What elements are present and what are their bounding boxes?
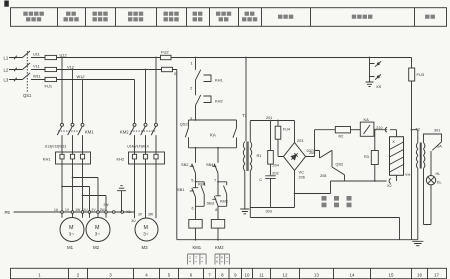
wire M1 columns down	[62, 164, 83, 218]
svg-text:V11: V11	[33, 64, 40, 69]
svg-text:301: 301	[434, 129, 440, 133]
chuck YH box	[390, 137, 404, 176]
fuse FU1 c	[45, 77, 57, 81]
svg-text:206: 206	[299, 176, 305, 180]
header cell 7 液压泵控制	[216, 14, 231, 20]
latch contact KM2	[218, 182, 227, 207]
wire L1 stub	[9, 56, 23, 60]
connector X2	[389, 175, 396, 183]
wire control drop	[195, 58, 197, 70]
wire M3 columns down	[135, 164, 157, 218]
svg-text:×: ×	[226, 259, 228, 263]
svg-text:3~: 3~	[95, 231, 101, 236]
svg-text:M2: M2	[93, 245, 100, 250]
contactor KM1 main contacts	[57, 123, 84, 152]
svg-text:YH: YH	[405, 172, 411, 177]
wire lamp return	[424, 169, 432, 225]
svg-text:R3: R3	[364, 155, 369, 159]
svg-text:15: 15	[389, 272, 394, 277]
transformer T1 windings	[243, 142, 245, 171]
ground T1	[240, 171, 249, 214]
wire L3 stub	[9, 78, 23, 82]
bottom strip	[11, 268, 447, 278]
wire KM2 column 1	[155, 58, 157, 124]
svg-text:U14(V14)W14: U14(V14)W14	[127, 145, 149, 149]
resistor R1	[270, 121, 272, 176]
svg-text:T1: T1	[242, 113, 248, 118]
wire KM1 column 2	[72, 70, 74, 124]
svg-text:U13(V13)W13: U13(V13)W13	[45, 145, 67, 149]
wire bus W12 row3	[57, 79, 135, 81]
svg-text:U12: U12	[60, 52, 67, 57]
pushbutton SB4	[212, 164, 218, 182]
wire node3 split	[189, 120, 237, 128]
svg-text:W12: W12	[77, 74, 85, 79]
header cell 8 整流变压器	[242, 14, 257, 20]
svg-text:×: ×	[201, 259, 203, 263]
svg-text:R2: R2	[339, 135, 344, 139]
thermal relay KH2	[129, 152, 165, 164]
svg-text:X: X	[392, 139, 395, 144]
wire KM1 column 1	[61, 58, 63, 124]
svg-text:KM1: KM1	[193, 245, 202, 250]
corner mark	[4, 1, 9, 7]
pushbutton SB2	[190, 164, 196, 182]
svg-text:5: 5	[191, 179, 193, 183]
wire 303 line	[250, 171, 294, 208]
rectifier bridge VC	[284, 143, 306, 171]
svg-text:U11: U11	[33, 52, 40, 57]
transformer T2 tap	[412, 130, 418, 143]
wire T2 primary return	[250, 169, 417, 240]
switch QS2 control contact	[185, 128, 195, 148]
wire KM2 column 3	[134, 80, 136, 124]
svg-text:KM1: KM1	[85, 129, 94, 134]
svg-text:17: 17	[434, 272, 439, 277]
svg-text:6: 6	[192, 206, 194, 210]
svg-text:KH2: KH2	[215, 99, 224, 104]
svg-text:KA: KA	[364, 117, 370, 122]
wire chuck return	[345, 180, 387, 182]
contactor KM2 link	[131, 130, 156, 132]
svg-text:L3: L3	[4, 77, 9, 82]
svg-text:C: C	[259, 177, 262, 182]
svg-text:EL: EL	[437, 181, 442, 185]
transformer T1 feed	[245, 58, 247, 142]
wire KM2 column 2	[145, 70, 147, 124]
strip numbers	[38, 272, 439, 277]
wire 0 drop	[173, 70, 177, 240]
header cell 3 冷却泵电动机	[93, 14, 108, 20]
svg-text:203: 203	[297, 139, 303, 143]
wire KM1 column 3	[82, 80, 84, 124]
svg-text:KM1: KM1	[198, 182, 206, 186]
svg-text:8: 8	[215, 208, 217, 212]
relay coil KA	[351, 129, 361, 131]
svg-text:303: 303	[266, 210, 272, 214]
wire bridge bottom	[295, 171, 331, 208]
svg-text:3U: 3U	[131, 219, 136, 223]
svg-text:M1: M1	[67, 245, 74, 250]
svg-text:QS1: QS1	[23, 93, 32, 98]
svg-text:SB4: SB4	[206, 162, 214, 167]
contact table KM2	[215, 254, 229, 265]
resistor R3	[374, 130, 376, 181]
svg-text:11: 11	[259, 272, 264, 277]
wire row1 after FU2	[171, 57, 412, 59]
switch QS1 link	[26, 51, 28, 92]
thermal contact KH1	[196, 70, 212, 96]
svg-text:3~: 3~	[143, 231, 149, 236]
svg-text:L1: L1	[4, 55, 9, 60]
svg-text:W11: W11	[33, 74, 41, 79]
header cell 4 液压泵电动机	[128, 14, 143, 20]
svg-text:13: 13	[314, 272, 319, 277]
switch QS1 blades	[23, 51, 31, 80]
wire bus V12 row2	[57, 69, 162, 71]
socket XS branch	[370, 58, 382, 83]
header cell 9 整流器	[278, 15, 293, 19]
svg-text:V12: V12	[67, 64, 74, 69]
svg-text:1W: 1W	[75, 208, 81, 212]
svg-text:M3: M3	[142, 245, 149, 250]
svg-text:FU3: FU3	[417, 72, 425, 77]
svg-text:SB1: SB1	[177, 187, 184, 192]
ground PE symbol	[117, 186, 126, 212]
header cell 11 照明	[425, 15, 435, 19]
svg-text:1U: 1U	[54, 208, 59, 212]
svg-text:208: 208	[320, 174, 326, 178]
svg-text:X1: X1	[126, 210, 131, 214]
svg-text:XS: XS	[376, 84, 382, 89]
ground XS	[366, 82, 374, 87]
svg-text:KA: KA	[210, 132, 216, 137]
motor M3	[135, 218, 158, 250]
coil KM2	[211, 220, 224, 229]
svg-text:QS2: QS2	[336, 162, 344, 166]
wire right bus	[411, 58, 413, 240]
svg-text:×: ×	[221, 259, 223, 263]
terminal circles X1	[61, 211, 124, 214]
wire after QS1	[31, 58, 45, 80]
svg-text:M: M	[69, 225, 74, 231]
svg-text:M: M	[95, 225, 100, 231]
fuse FU1 b	[45, 67, 57, 71]
header cell 6 砂轮控制	[193, 14, 203, 20]
svg-text:SB3: SB3	[207, 200, 214, 205]
header cell 1 电源开关及保护	[23, 14, 44, 20]
svg-text:T2: T2	[415, 127, 420, 132]
transformer T2 core	[420, 143, 421, 169]
contactor KM2 main contacts	[130, 123, 158, 152]
fuse FU3	[409, 68, 415, 81]
thermal relay KH1	[56, 152, 91, 164]
svg-text:KM2: KM2	[120, 129, 129, 134]
pushbutton SB3	[212, 182, 220, 220]
coil KM1	[189, 220, 202, 229]
wire M2 branch jogs	[62, 178, 106, 218]
contactor KM1 link	[58, 130, 81, 132]
svg-text:X2: X2	[387, 184, 392, 188]
svg-text:3~: 3~	[69, 231, 75, 236]
contact table KM1	[188, 254, 207, 265]
svg-text:QS2: QS2	[180, 122, 189, 127]
ground right	[412, 241, 423, 245]
fuse FU1 a	[45, 55, 57, 59]
switch SA	[424, 134, 442, 176]
latch contact KM1	[196, 182, 205, 207]
wire 201 line	[250, 121, 294, 143]
svg-text:SA: SA	[437, 144, 443, 149]
note 退磁说明	[322, 198, 352, 205]
pushbutton SB1	[190, 182, 198, 220]
fuse FU4	[278, 121, 284, 157]
relay contact KA	[233, 128, 237, 148]
svg-text:FU2: FU2	[161, 49, 169, 54]
wire 0 return line	[177, 239, 418, 241]
wire bridge right to R2 line	[306, 130, 336, 157]
connector X pin	[374, 127, 397, 136]
svg-text:2U: 2U	[83, 208, 88, 212]
header table frame	[11, 8, 447, 27]
svg-text:12: 12	[283, 272, 288, 277]
svg-text:KH1: KH1	[43, 157, 52, 162]
svg-text:FU1: FU1	[45, 83, 53, 88]
svg-text:HL: HL	[436, 172, 441, 176]
svg-text:KM2: KM2	[220, 199, 228, 203]
motor M1	[60, 218, 84, 251]
header cell 10 电磁吸盘	[352, 15, 373, 19]
svg-text:201: 201	[266, 116, 272, 120]
transformer T2 windings	[416, 143, 417, 169]
svg-text:M: M	[144, 225, 149, 231]
svg-text:KM2: KM2	[215, 245, 224, 250]
svg-text:FU4: FU4	[283, 128, 290, 132]
header cell 5 控制电路保护	[164, 14, 179, 20]
switch QS2 chuck contact b	[331, 167, 345, 181]
chuck YH hatch	[390, 142, 404, 172]
svg-text:L2: L2	[4, 67, 9, 72]
svg-text:SB2: SB2	[181, 162, 188, 167]
svg-text:202: 202	[272, 172, 278, 176]
fuse FU2 a	[161, 55, 172, 59]
wire branch split	[196, 148, 237, 163]
svg-text:10: 10	[245, 272, 250, 277]
transformer T1 core	[247, 142, 248, 172]
motor M2	[86, 218, 110, 251]
svg-text:VC: VC	[299, 169, 305, 174]
svg-text:207: 207	[307, 149, 313, 153]
capacitor C	[265, 176, 275, 208]
switch QS2 chuck contact a	[315, 150, 333, 167]
wire bus U12 row1	[57, 57, 161, 59]
lamp EL	[426, 176, 435, 185]
svg-text:KH2: KH2	[117, 157, 126, 162]
thermal contact KH2	[196, 95, 212, 120]
wire L2 stub	[9, 68, 23, 72]
svg-text:16: 16	[417, 272, 422, 277]
svg-text:R1: R1	[257, 153, 263, 158]
fuse FU2 b	[162, 67, 173, 71]
svg-text:7: 7	[214, 179, 216, 183]
svg-text:KH1: KH1	[215, 78, 224, 83]
header cell 2 砂轮电动机	[64, 14, 79, 20]
svg-text:×: ×	[195, 259, 197, 263]
svg-text:PE: PE	[5, 210, 11, 215]
resistor R2	[335, 127, 350, 133]
svg-text:14: 14	[350, 272, 355, 277]
wire X1 terminal line	[14, 211, 135, 213]
